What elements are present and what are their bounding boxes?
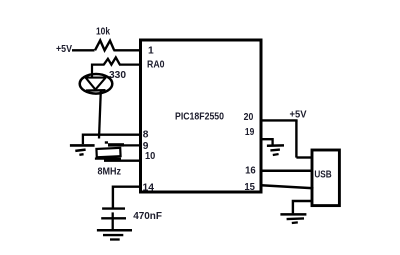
wire pin 9 to crystal [108,144,140,146]
wire +5V vertical drop [295,120,297,157]
wire pin 20 to +5V corner [261,119,298,121]
crystal Y1 top plate [105,141,124,145]
svg-text:16: 16 [245,166,256,177]
wire R1 to pin 1 [114,49,141,51]
svg-text:RA0: RA0 [147,60,165,71]
svg-text:PIC18F2550: PIC18F2550 [175,111,224,122]
svg-text:+5V: +5V [290,110,307,121]
resistor R1 [95,40,114,50]
svg-text:20: 20 [244,112,254,123]
svg-text:19: 19 [245,127,255,138]
connector J1 USB body [312,150,339,206]
ground (pin 19) [267,145,284,155]
svg-text:1: 1 [148,46,154,57]
wire pin 14 to C1 [113,187,140,208]
op-amp U1 PIC18F2550 body [141,40,262,192]
svg-text:8: 8 [143,129,149,140]
wire pin 8 to ground [82,133,140,135]
crystal Y1 body [96,148,120,157]
wire USB to ground [293,201,312,213]
svg-text:USB: USB [314,170,331,181]
ground (pin 8 net) [70,134,95,155]
crystal Y1 bottom plate [95,157,121,159]
wire pin 15 to USB [261,185,314,188]
svg-text:8MHz: 8MHz [98,166,122,177]
wire pin 10 to crystal [104,159,140,161]
wire RA0 pin to R2 [119,63,140,65]
wire pin 19 to ground [261,139,273,145]
svg-text:15: 15 [244,182,255,193]
LED D1 [80,74,113,94]
capacitor C1 [101,209,126,219]
svg-text:10k: 10k [96,26,110,37]
svg-text:10: 10 [145,151,156,162]
ground (USB) [280,214,306,223]
wire +5V into USB [296,156,312,158]
resistor R2 [104,57,120,64]
svg-text:14: 14 [143,183,155,194]
wire LED cathode to pin-8 net [99,91,101,139]
wire C1 to ground [112,219,114,229]
ground (C1) [97,230,132,239]
svg-text:+5V: +5V [56,44,72,55]
wire +5V to R1 [72,49,95,51]
wire pin 16 to USB [261,169,312,172]
svg-text:470nF: 470nF [133,211,162,222]
wire R2 to LED anode [92,65,105,78]
